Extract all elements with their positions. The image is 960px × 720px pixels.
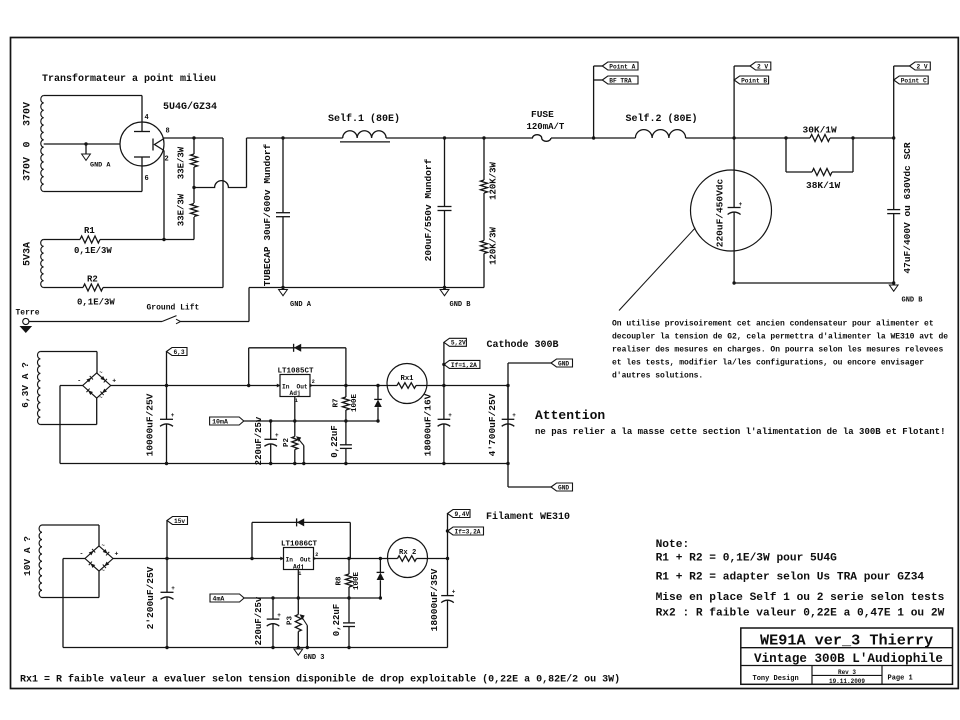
svg-text:Point B: Point B bbox=[741, 77, 767, 84]
svg-text:10V A ?: 10V A ? bbox=[22, 536, 33, 576]
svg-text:Note:: Note: bbox=[656, 539, 690, 551]
svg-text:6,3: 6,3 bbox=[174, 349, 185, 356]
svg-text:R1: R1 bbox=[84, 226, 95, 236]
svg-text:R1 + R2 = 0,1E/3W pour 5U4G: R1 + R2 = 0,1E/3W pour 5U4G bbox=[656, 553, 838, 565]
svg-text:+: + bbox=[448, 412, 452, 419]
svg-text:ne pas relier a la masse cette: ne pas relier a la masse cette section l… bbox=[535, 427, 945, 437]
svg-text:4: 4 bbox=[145, 114, 149, 122]
svg-text:Rev 3: Rev 3 bbox=[838, 669, 856, 676]
svg-text:GND A: GND A bbox=[290, 301, 312, 309]
svg-text:18000uF/35V: 18000uF/35V bbox=[429, 568, 440, 631]
svg-text:et les tests, modifier la/les: et les tests, modifier la/les configurat… bbox=[612, 359, 924, 368]
svg-text:+: + bbox=[277, 612, 281, 619]
svg-text:R2: R2 bbox=[87, 275, 98, 285]
svg-text:2 V: 2 V bbox=[917, 63, 928, 70]
svg-text:6,3V A ?: 6,3V A ? bbox=[20, 362, 31, 408]
svg-text:8: 8 bbox=[166, 128, 170, 136]
svg-text:Point A: Point A bbox=[609, 63, 635, 70]
svg-text:220uF/450Vdc: 220uF/450Vdc bbox=[714, 179, 725, 248]
svg-text:370V: 370V bbox=[23, 157, 34, 181]
svg-text:GND: GND bbox=[558, 484, 569, 491]
svg-text:220uF/25v: 220uF/25v bbox=[254, 596, 264, 645]
svg-text:2'200uF/25V: 2'200uF/25V bbox=[145, 566, 156, 629]
svg-text:Tony Design: Tony Design bbox=[753, 675, 799, 683]
svg-text:GND A: GND A bbox=[90, 162, 111, 170]
svg-text:Out: Out bbox=[300, 556, 311, 563]
svg-text:R1 + R2 = adapter selon Us TRA: R1 + R2 = adapter selon Us TRA pour GZ34 bbox=[656, 572, 925, 584]
svg-text:Rx2 : R faible valeur 0,22E a: Rx2 : R faible valeur 0,22E a 0,47E 1 ou… bbox=[656, 608, 945, 620]
svg-text:Filament WE310: Filament WE310 bbox=[486, 511, 570, 523]
svg-text:decoupler la tension de G2, ce: decoupler la tension de G2, cela permett… bbox=[612, 333, 948, 342]
svg-text:2: 2 bbox=[165, 156, 169, 164]
svg-text:FUSE: FUSE bbox=[531, 109, 554, 120]
svg-text:5U4G/GZ34: 5U4G/GZ34 bbox=[163, 101, 217, 113]
svg-text:100E: 100E bbox=[353, 572, 361, 591]
svg-text:P2: P2 bbox=[283, 438, 291, 448]
svg-text:0,1E/3W: 0,1E/3W bbox=[74, 246, 112, 256]
svg-text:+: + bbox=[171, 412, 175, 419]
svg-text:Rx1 = R faible valeur a evalue: Rx1 = R faible valeur a evaluer selon te… bbox=[20, 674, 620, 686]
svg-text:33E/3W: 33E/3W bbox=[177, 193, 187, 226]
svg-text:120mA/T: 120mA/T bbox=[527, 122, 565, 132]
svg-text:+: + bbox=[115, 551, 119, 558]
svg-text:Vintage 300B L'Audiophile: Vintage 300B L'Audiophile bbox=[754, 652, 943, 666]
svg-text:Attention: Attention bbox=[535, 408, 605, 423]
svg-text:0,1E/3W: 0,1E/3W bbox=[77, 298, 115, 308]
svg-text:GND B: GND B bbox=[902, 297, 924, 305]
svg-text:30K/1W: 30K/1W bbox=[803, 125, 838, 136]
svg-text:33E/3W: 33E/3W bbox=[177, 146, 187, 179]
svg-text:~: ~ bbox=[99, 369, 103, 376]
svg-text:+: + bbox=[452, 588, 456, 595]
svg-text:2: 2 bbox=[315, 552, 318, 558]
svg-text:+: + bbox=[739, 201, 743, 208]
svg-text:10000uF/25V: 10000uF/25V bbox=[145, 393, 156, 456]
svg-text:d'autres solutions.: d'autres solutions. bbox=[612, 372, 703, 381]
svg-text:+: + bbox=[171, 585, 175, 592]
svg-text:+: + bbox=[512, 412, 516, 419]
svg-text:realiser des mesures en charge: realiser des mesures en charges. On pour… bbox=[612, 346, 943, 355]
svg-text:19.11.2009: 19.11.2009 bbox=[829, 678, 865, 685]
svg-text:GND: GND bbox=[558, 360, 569, 367]
svg-text:38K/1W: 38K/1W bbox=[806, 180, 841, 191]
svg-text:9,4V: 9,4V bbox=[455, 511, 470, 518]
svg-text:On utilise provisoirement cet: On utilise provisoirement cet ancien con… bbox=[612, 320, 934, 329]
svg-text:GND B: GND B bbox=[450, 301, 472, 309]
svg-text:220uF/25v: 220uF/25v bbox=[254, 416, 264, 465]
svg-text:Adj: Adj bbox=[290, 390, 301, 397]
svg-text:Self.2 (80E): Self.2 (80E) bbox=[626, 113, 698, 125]
svg-text:18000uF/16V: 18000uF/16V bbox=[423, 393, 434, 456]
svg-text:5V3A: 5V3A bbox=[23, 242, 34, 266]
svg-text:0: 0 bbox=[23, 141, 34, 147]
svg-text:R8: R8 bbox=[336, 576, 344, 586]
svg-text:Terre: Terre bbox=[16, 309, 40, 318]
svg-text:Ground Lift: Ground Lift bbox=[147, 304, 200, 313]
svg-text:4'700uF/25V: 4'700uF/25V bbox=[487, 393, 498, 456]
svg-text:GND 3: GND 3 bbox=[304, 654, 325, 662]
svg-text:4mA: 4mA bbox=[213, 595, 225, 602]
svg-text:6: 6 bbox=[145, 175, 149, 183]
svg-text:-: - bbox=[77, 378, 81, 385]
svg-text:Page 1: Page 1 bbox=[888, 674, 913, 682]
svg-text:10mA: 10mA bbox=[212, 418, 228, 425]
svg-text:2: 2 bbox=[312, 379, 315, 385]
svg-text:WE91A ver_3 Thierry: WE91A ver_3 Thierry bbox=[760, 632, 933, 650]
svg-text:~: ~ bbox=[102, 542, 106, 549]
svg-text:120K/3W: 120K/3W bbox=[489, 162, 499, 200]
svg-text:TUBECAP 30uF/600v Mundorf: TUBECAP 30uF/600v Mundorf bbox=[262, 143, 273, 286]
svg-text:+: + bbox=[112, 378, 116, 385]
svg-text:~: ~ bbox=[99, 394, 103, 401]
svg-text:If=1,2A: If=1,2A bbox=[451, 362, 477, 369]
svg-text:100E: 100E bbox=[351, 394, 359, 413]
svg-text:P3: P3 bbox=[287, 616, 295, 626]
svg-text:15v: 15v bbox=[174, 518, 185, 525]
svg-text:2 V: 2 V bbox=[757, 63, 768, 70]
svg-text:If=3,2A: If=3,2A bbox=[455, 528, 481, 535]
svg-text:47uF/400V ou 630Vdc SCR: 47uF/400V ou 630Vdc SCR bbox=[902, 142, 913, 273]
svg-text:0,22uF: 0,22uF bbox=[330, 425, 340, 457]
svg-text:Rx1: Rx1 bbox=[401, 375, 415, 383]
svg-text:Cathode 300B: Cathode 300B bbox=[487, 339, 559, 351]
svg-text:+: + bbox=[275, 432, 279, 439]
svg-text:R7: R7 bbox=[333, 398, 341, 407]
svg-text:120K/3W: 120K/3W bbox=[489, 227, 499, 265]
svg-text:0,22uF: 0,22uF bbox=[332, 604, 342, 636]
svg-text:Point C: Point C bbox=[901, 77, 927, 84]
svg-text:Transformateur a point milieu: Transformateur a point milieu bbox=[42, 73, 216, 85]
svg-text:Mise en place Self 1 ou 2 seri: Mise en place Self 1 ou 2 serie selon te… bbox=[656, 592, 945, 604]
svg-text:Self.1 (80E): Self.1 (80E) bbox=[328, 113, 400, 125]
svg-text:5,2V: 5,2V bbox=[451, 340, 466, 347]
svg-text:BF TRA: BF TRA bbox=[609, 77, 632, 84]
svg-text:200uF/550v Mundorf: 200uF/550v Mundorf bbox=[423, 158, 434, 261]
svg-text:370V: 370V bbox=[23, 102, 34, 126]
svg-text:~: ~ bbox=[102, 567, 106, 574]
svg-text:Rx 2: Rx 2 bbox=[399, 549, 416, 557]
svg-text:In: In bbox=[286, 556, 294, 563]
svg-text:-: - bbox=[80, 551, 84, 558]
